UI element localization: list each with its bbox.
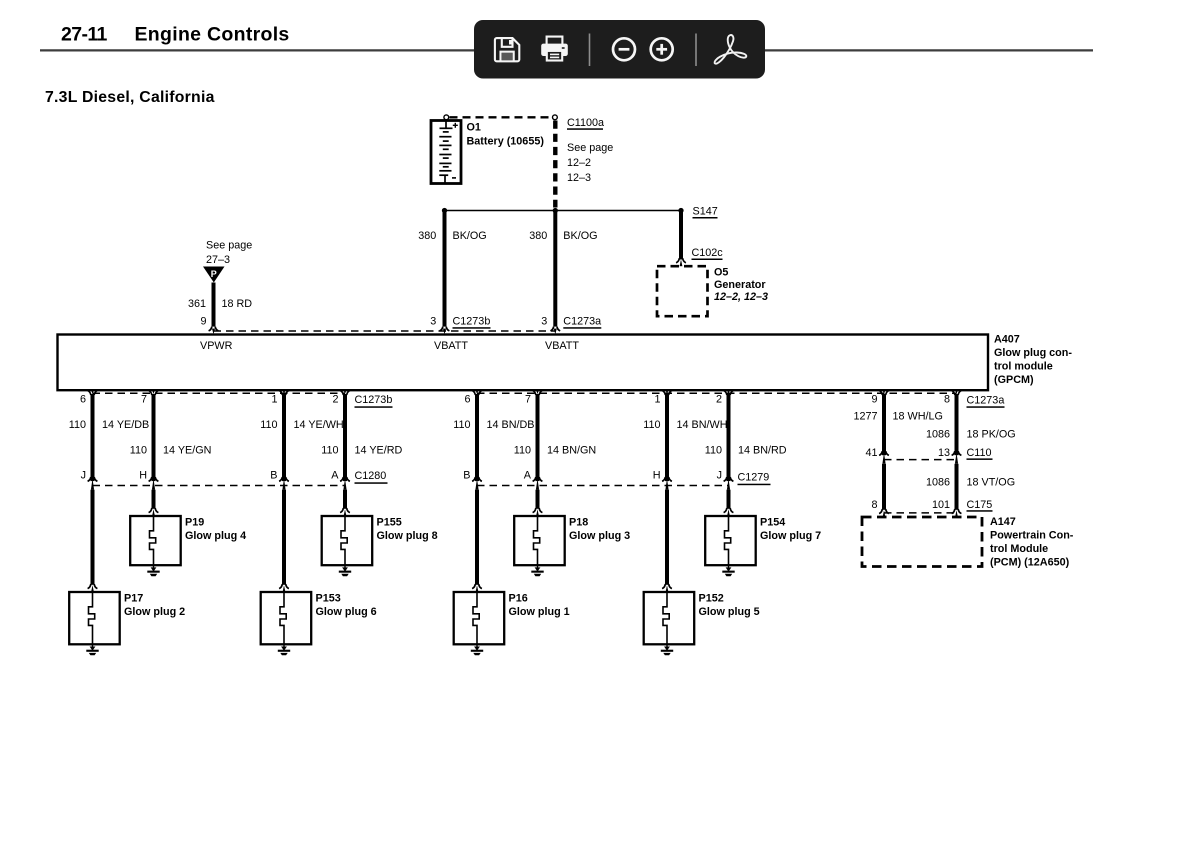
connector C1279 dashed line	[477, 485, 729, 487]
connector arrow at C1280/C1279 wire 110	[724, 477, 727, 481]
print icon	[547, 37, 563, 45]
glow plug P18 box	[514, 516, 565, 565]
connector arrow at C1280/C1279 wire 110	[533, 477, 536, 481]
header rule	[40, 49, 1093, 51]
PCM A147 dashed box	[862, 517, 982, 567]
wire circuit 110 14 BN/WH	[665, 394, 669, 481]
svg-text:P19: P19	[185, 517, 204, 529]
svg-text:P17: P17	[124, 593, 143, 605]
node circle at battery positive	[444, 115, 449, 120]
svg-text:18 RD: 18 RD	[222, 298, 253, 310]
svg-text:B: B	[270, 469, 277, 481]
svg-text:6: 6	[464, 394, 470, 406]
wire circuit 110 14 YE/RD	[343, 394, 347, 481]
svg-text:Glow plug 1: Glow plug 1	[509, 606, 570, 618]
svg-text:18 WH/LG: 18 WH/LG	[893, 410, 943, 422]
connector arrow left wire into GPCM	[440, 327, 443, 331]
svg-text:13: 13	[938, 447, 950, 459]
connector arrow at C1280/C1279 wire 110	[149, 477, 152, 481]
svg-text:7: 7	[141, 394, 147, 406]
svg-text:Generator: Generator	[714, 279, 766, 291]
wire 361 18 RD	[212, 283, 216, 327]
power symbol P triangle	[203, 267, 225, 283]
wire 1086 18 PK/OG	[955, 394, 959, 455]
save floppy icon	[495, 38, 519, 61]
svg-text:110: 110	[705, 445, 722, 457]
svg-text:6: 6	[80, 394, 86, 406]
ground below P16	[476, 644, 478, 649]
svg-text:12–2: 12–2	[567, 157, 591, 169]
junction dot S147	[678, 208, 683, 213]
svg-text:VBATT: VBATT	[545, 340, 579, 352]
wire circuit 110 14 BN/GN	[536, 394, 540, 481]
generator O5 dashed box	[657, 266, 708, 316]
separator 1	[589, 34, 591, 67]
svg-text:27–3: 27–3	[206, 254, 230, 266]
svg-text:Glow plug 6: Glow plug 6	[316, 606, 377, 618]
GPCM module A407 box	[58, 335, 989, 391]
connector arrow at C1280/C1279 wire 110	[279, 477, 282, 481]
svg-text:14 YE/RD: 14 YE/RD	[355, 445, 403, 457]
svg-text:Glow plug 5: Glow plug 5	[699, 606, 760, 618]
ground below P17	[92, 644, 94, 649]
svg-text:7: 7	[525, 394, 531, 406]
svg-text:Engine Controls: Engine Controls	[135, 24, 290, 46]
svg-text:Glow plug 2: Glow plug 2	[124, 606, 185, 618]
connector arrow at C1280/C1279 wire 110	[662, 477, 665, 481]
svg-text:8: 8	[871, 499, 877, 511]
ground below P19	[153, 565, 155, 570]
svg-text:P16: P16	[509, 593, 528, 605]
wire down to P17	[91, 490, 95, 585]
connector arrow w9 at C110	[879, 451, 882, 455]
connector dashed line below GPCM right C1273a	[477, 392, 957, 394]
svg-text:C1273a: C1273a	[563, 316, 601, 328]
ground below P18	[537, 565, 539, 570]
connector C1280 dashed line	[93, 485, 346, 487]
svg-text:See page: See page	[567, 142, 613, 154]
svg-text:1: 1	[654, 394, 660, 406]
svg-text:110: 110	[130, 445, 147, 457]
svg-text:3: 3	[541, 316, 547, 328]
acrobat reader icon	[715, 35, 747, 64]
svg-text:14 BN/WH: 14 BN/WH	[677, 419, 728, 431]
svg-text:18 VT/OG: 18 VT/OG	[967, 476, 1016, 488]
junction dot center	[553, 208, 558, 213]
svg-text:Glow plug 3: Glow plug 3	[569, 530, 630, 542]
svg-text:2: 2	[716, 394, 722, 406]
connector arrow at C1280/C1279 wire 110	[472, 477, 475, 481]
svg-text:trol Module: trol Module	[990, 543, 1048, 555]
svg-text:27-11: 27-11	[61, 24, 108, 46]
glow plug P19 box	[130, 516, 181, 565]
glow plug P154 box	[705, 516, 756, 565]
svg-text:14 BN/RD: 14 BN/RD	[738, 445, 787, 457]
ground below P154	[728, 565, 730, 570]
connector arrow into P155	[340, 508, 343, 513]
glow plug P155 box	[322, 516, 373, 565]
svg-text:1: 1	[271, 394, 277, 406]
svg-text:B: B	[463, 469, 470, 481]
svg-text:O1: O1	[467, 121, 481, 133]
connector arrow into P16	[472, 584, 475, 589]
svg-text:C1273a: C1273a	[967, 394, 1005, 406]
svg-text:3: 3	[430, 316, 436, 328]
connector arrow w9 into PCM	[879, 509, 882, 514]
svg-text:41: 41	[865, 447, 877, 459]
svg-text:O5: O5	[714, 267, 728, 279]
zoom in icon	[651, 38, 673, 60]
svg-text:8: 8	[944, 394, 950, 406]
svg-text:C1280: C1280	[355, 470, 387, 482]
wire down to P155	[343, 490, 347, 509]
wire dashed from battery to C1100a	[450, 116, 552, 118]
connector arrow into P17	[88, 584, 91, 589]
connector C175 dashed line	[884, 512, 957, 514]
wire circuit 110 14 YE/WH	[282, 394, 286, 481]
connector arrow w10 at C110	[952, 451, 955, 455]
svg-text:C1279: C1279	[738, 472, 770, 484]
wire circuit 110 14 YE/DB	[91, 394, 95, 481]
svg-text:P153: P153	[316, 593, 341, 605]
svg-text:110: 110	[321, 445, 338, 457]
connector arrow pin 9 into GPCM	[209, 327, 212, 331]
svg-text:Battery (10655): Battery (10655)	[467, 135, 545, 147]
svg-text:P152: P152	[699, 593, 724, 605]
ground below P153	[283, 644, 285, 649]
connector arrow w10 into PCM	[952, 509, 955, 514]
ground below P155	[344, 565, 346, 570]
svg-text:C102c: C102c	[692, 247, 724, 259]
wire splice bus	[445, 210, 682, 212]
svg-text:(GPCM): (GPCM)	[994, 374, 1034, 386]
node circle at C1100a	[553, 115, 558, 120]
svg-text:2: 2	[332, 394, 338, 406]
glow plug P17 box	[69, 592, 120, 644]
battery O1 cell stack symbol	[431, 121, 461, 184]
wire S147 to generator	[679, 211, 683, 260]
wire circuit 110 14 YE/GN	[152, 394, 156, 481]
svg-text:Glow plug con-: Glow plug con-	[994, 347, 1072, 359]
svg-text:14 BN/GN: 14 BN/GN	[547, 445, 596, 457]
svg-text:110: 110	[643, 419, 660, 431]
svg-text:P18: P18	[569, 517, 588, 529]
svg-text:H: H	[139, 469, 147, 481]
svg-text:P154: P154	[760, 517, 785, 529]
svg-text:A407: A407	[994, 333, 1020, 345]
svg-text:A: A	[331, 469, 339, 481]
svg-text:380: 380	[418, 230, 436, 242]
svg-text:P: P	[211, 269, 217, 279]
ground below P152	[666, 644, 668, 649]
svg-text:VPWR: VPWR	[200, 340, 233, 352]
wire heavy dashed battery feed	[553, 121, 557, 208]
svg-text:361: 361	[188, 298, 206, 310]
svg-text:Powertrain Con-: Powertrain Con-	[990, 530, 1074, 542]
svg-text:C1100a: C1100a	[567, 117, 604, 129]
svg-text:110: 110	[514, 445, 531, 457]
svg-text:101: 101	[932, 499, 950, 511]
svg-text:P155: P155	[377, 517, 402, 529]
svg-text:18 PK/OG: 18 PK/OG	[967, 429, 1016, 441]
svg-text:(PCM) (12A650): (PCM) (12A650)	[990, 557, 1070, 569]
glow plug P16 box	[454, 592, 505, 644]
svg-text:1277: 1277	[853, 410, 877, 422]
svg-text:trol module: trol module	[994, 360, 1053, 372]
svg-text:380: 380	[529, 230, 547, 242]
svg-text:Glow plug 7: Glow plug 7	[760, 530, 821, 542]
svg-text:C1273b: C1273b	[453, 316, 491, 328]
svg-text:H: H	[653, 469, 661, 481]
separator 2	[695, 34, 697, 67]
svg-text:12–2, 12–3: 12–2, 12–3	[714, 291, 768, 303]
svg-text:14 BN/DB: 14 BN/DB	[487, 419, 535, 431]
svg-text:S147: S147	[693, 206, 718, 218]
wire down to P153	[282, 490, 286, 585]
svg-text:14 YE/DB: 14 YE/DB	[102, 419, 149, 431]
svg-text:J: J	[81, 469, 86, 481]
connector arrow into generator	[676, 258, 679, 263]
connector dashed line above GPCM	[214, 330, 556, 332]
connector arrow into P153	[279, 584, 282, 589]
svg-text:7.3L Diesel, California: 7.3L Diesel, California	[45, 89, 215, 106]
connector arrow into P18	[533, 508, 536, 513]
svg-text:9: 9	[200, 316, 206, 328]
junction dot left	[442, 208, 447, 213]
svg-text:C175: C175	[967, 499, 993, 511]
svg-text:14 YE/GN: 14 YE/GN	[163, 445, 211, 457]
connector C110 dashed line	[884, 459, 957, 461]
svg-text:110: 110	[260, 419, 277, 431]
svg-text:A147: A147	[990, 516, 1016, 528]
svg-text:14 YE/WH: 14 YE/WH	[294, 419, 344, 431]
wire down to P16	[475, 490, 479, 585]
wire 41 to PCM	[882, 464, 886, 510]
connector arrow at C1280/C1279 wire 110	[340, 477, 343, 481]
svg-text:Glow plug 4: Glow plug 4	[185, 530, 246, 542]
toolbar dark panel	[474, 20, 765, 79]
svg-text:Glow plug 8: Glow plug 8	[377, 530, 438, 542]
svg-text:110: 110	[453, 419, 470, 431]
svg-text:9: 9	[871, 394, 877, 406]
connector arrow at C1280/C1279 wire 110	[88, 477, 91, 481]
connector arrow center wire into GPCM	[550, 327, 553, 331]
wire down to P18	[536, 490, 540, 509]
svg-text:1086: 1086	[926, 476, 950, 488]
wire 380 BK/OG center	[553, 211, 557, 327]
svg-text:BK/OG: BK/OG	[563, 230, 597, 242]
wire 380 BK/OG left	[443, 211, 447, 327]
connector dashed line below GPCM left C1273b	[93, 392, 346, 394]
connector arrow into P154	[724, 508, 727, 513]
svg-text:BK/OG: BK/OG	[453, 230, 487, 242]
svg-text:A: A	[524, 469, 532, 481]
wire 1277 18 WH/LG	[882, 394, 886, 455]
wire down to P154	[727, 490, 731, 509]
wire 1086 18 VT/OG	[955, 464, 959, 510]
connector arrow into P19	[149, 508, 152, 513]
svg-text:See page: See page	[206, 240, 252, 252]
wire down to P19	[152, 490, 156, 509]
svg-text:12–3: 12–3	[567, 172, 591, 184]
svg-text:VBATT: VBATT	[434, 340, 468, 352]
connector arrow into P152	[662, 584, 665, 589]
wire down to P152	[665, 490, 669, 585]
svg-text:C1273b: C1273b	[355, 394, 393, 406]
wire circuit 110 14 BN/RD	[727, 394, 731, 481]
svg-text:110: 110	[69, 419, 86, 431]
wire circuit 110 14 BN/DB	[475, 394, 479, 481]
svg-text:1086: 1086	[926, 429, 950, 441]
glow plug P153 box	[261, 592, 312, 644]
svg-text:J: J	[717, 469, 722, 481]
zoom out icon	[613, 38, 635, 60]
svg-text:C110: C110	[967, 447, 992, 459]
glow plug P152 box	[644, 592, 695, 644]
